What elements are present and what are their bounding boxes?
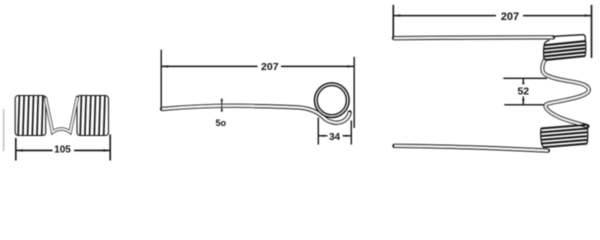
right tine top arm wire bbox=[394, 35, 553, 40]
right tine dimension 207 extension lines bbox=[393, 5, 591, 58]
middle tine dimension 207 line bbox=[161, 65, 354, 67]
right tine top coil bbox=[544, 35, 586, 60]
svg-text:34: 34 bbox=[329, 132, 341, 143]
svg-text:5o: 5o bbox=[216, 118, 227, 128]
right tine bottom coil bbox=[541, 125, 588, 148]
dimension 34 line and arrows bbox=[319, 135, 352, 137]
svg-text:207: 207 bbox=[501, 11, 519, 23]
left spring left coil bbox=[15, 96, 46, 136]
right tine S-bridge wire bbox=[542, 60, 588, 126]
left spring centre bridge wire bbox=[45, 97, 77, 132]
dimension 52 extension lines bbox=[503, 78, 547, 105]
right tine bottom arm wire bbox=[394, 146, 548, 151]
middle tine shaft wire bbox=[162, 106, 350, 123]
dimension 52 line and arrows bbox=[522, 79, 524, 105]
svg-text:207: 207 bbox=[261, 61, 279, 73]
scan edge artifacts bbox=[3, 109, 5, 151]
svg-text:105: 105 bbox=[54, 145, 71, 156]
middle tine wire thickness tick 5o bbox=[221, 98, 223, 111]
right tine dimension 207 line bbox=[394, 14, 592, 16]
dimension 34 extension lines bbox=[318, 118, 351, 145]
dimension 105 line and arrows bbox=[16, 149, 110, 152]
dimension 105 extension lines bbox=[16, 135, 110, 161]
middle tine dimension 207 extension lines bbox=[161, 50, 354, 128]
left spring right coil bbox=[77, 96, 109, 136]
middle tine coil loop bbox=[315, 83, 350, 118]
svg-text:52: 52 bbox=[517, 86, 529, 98]
